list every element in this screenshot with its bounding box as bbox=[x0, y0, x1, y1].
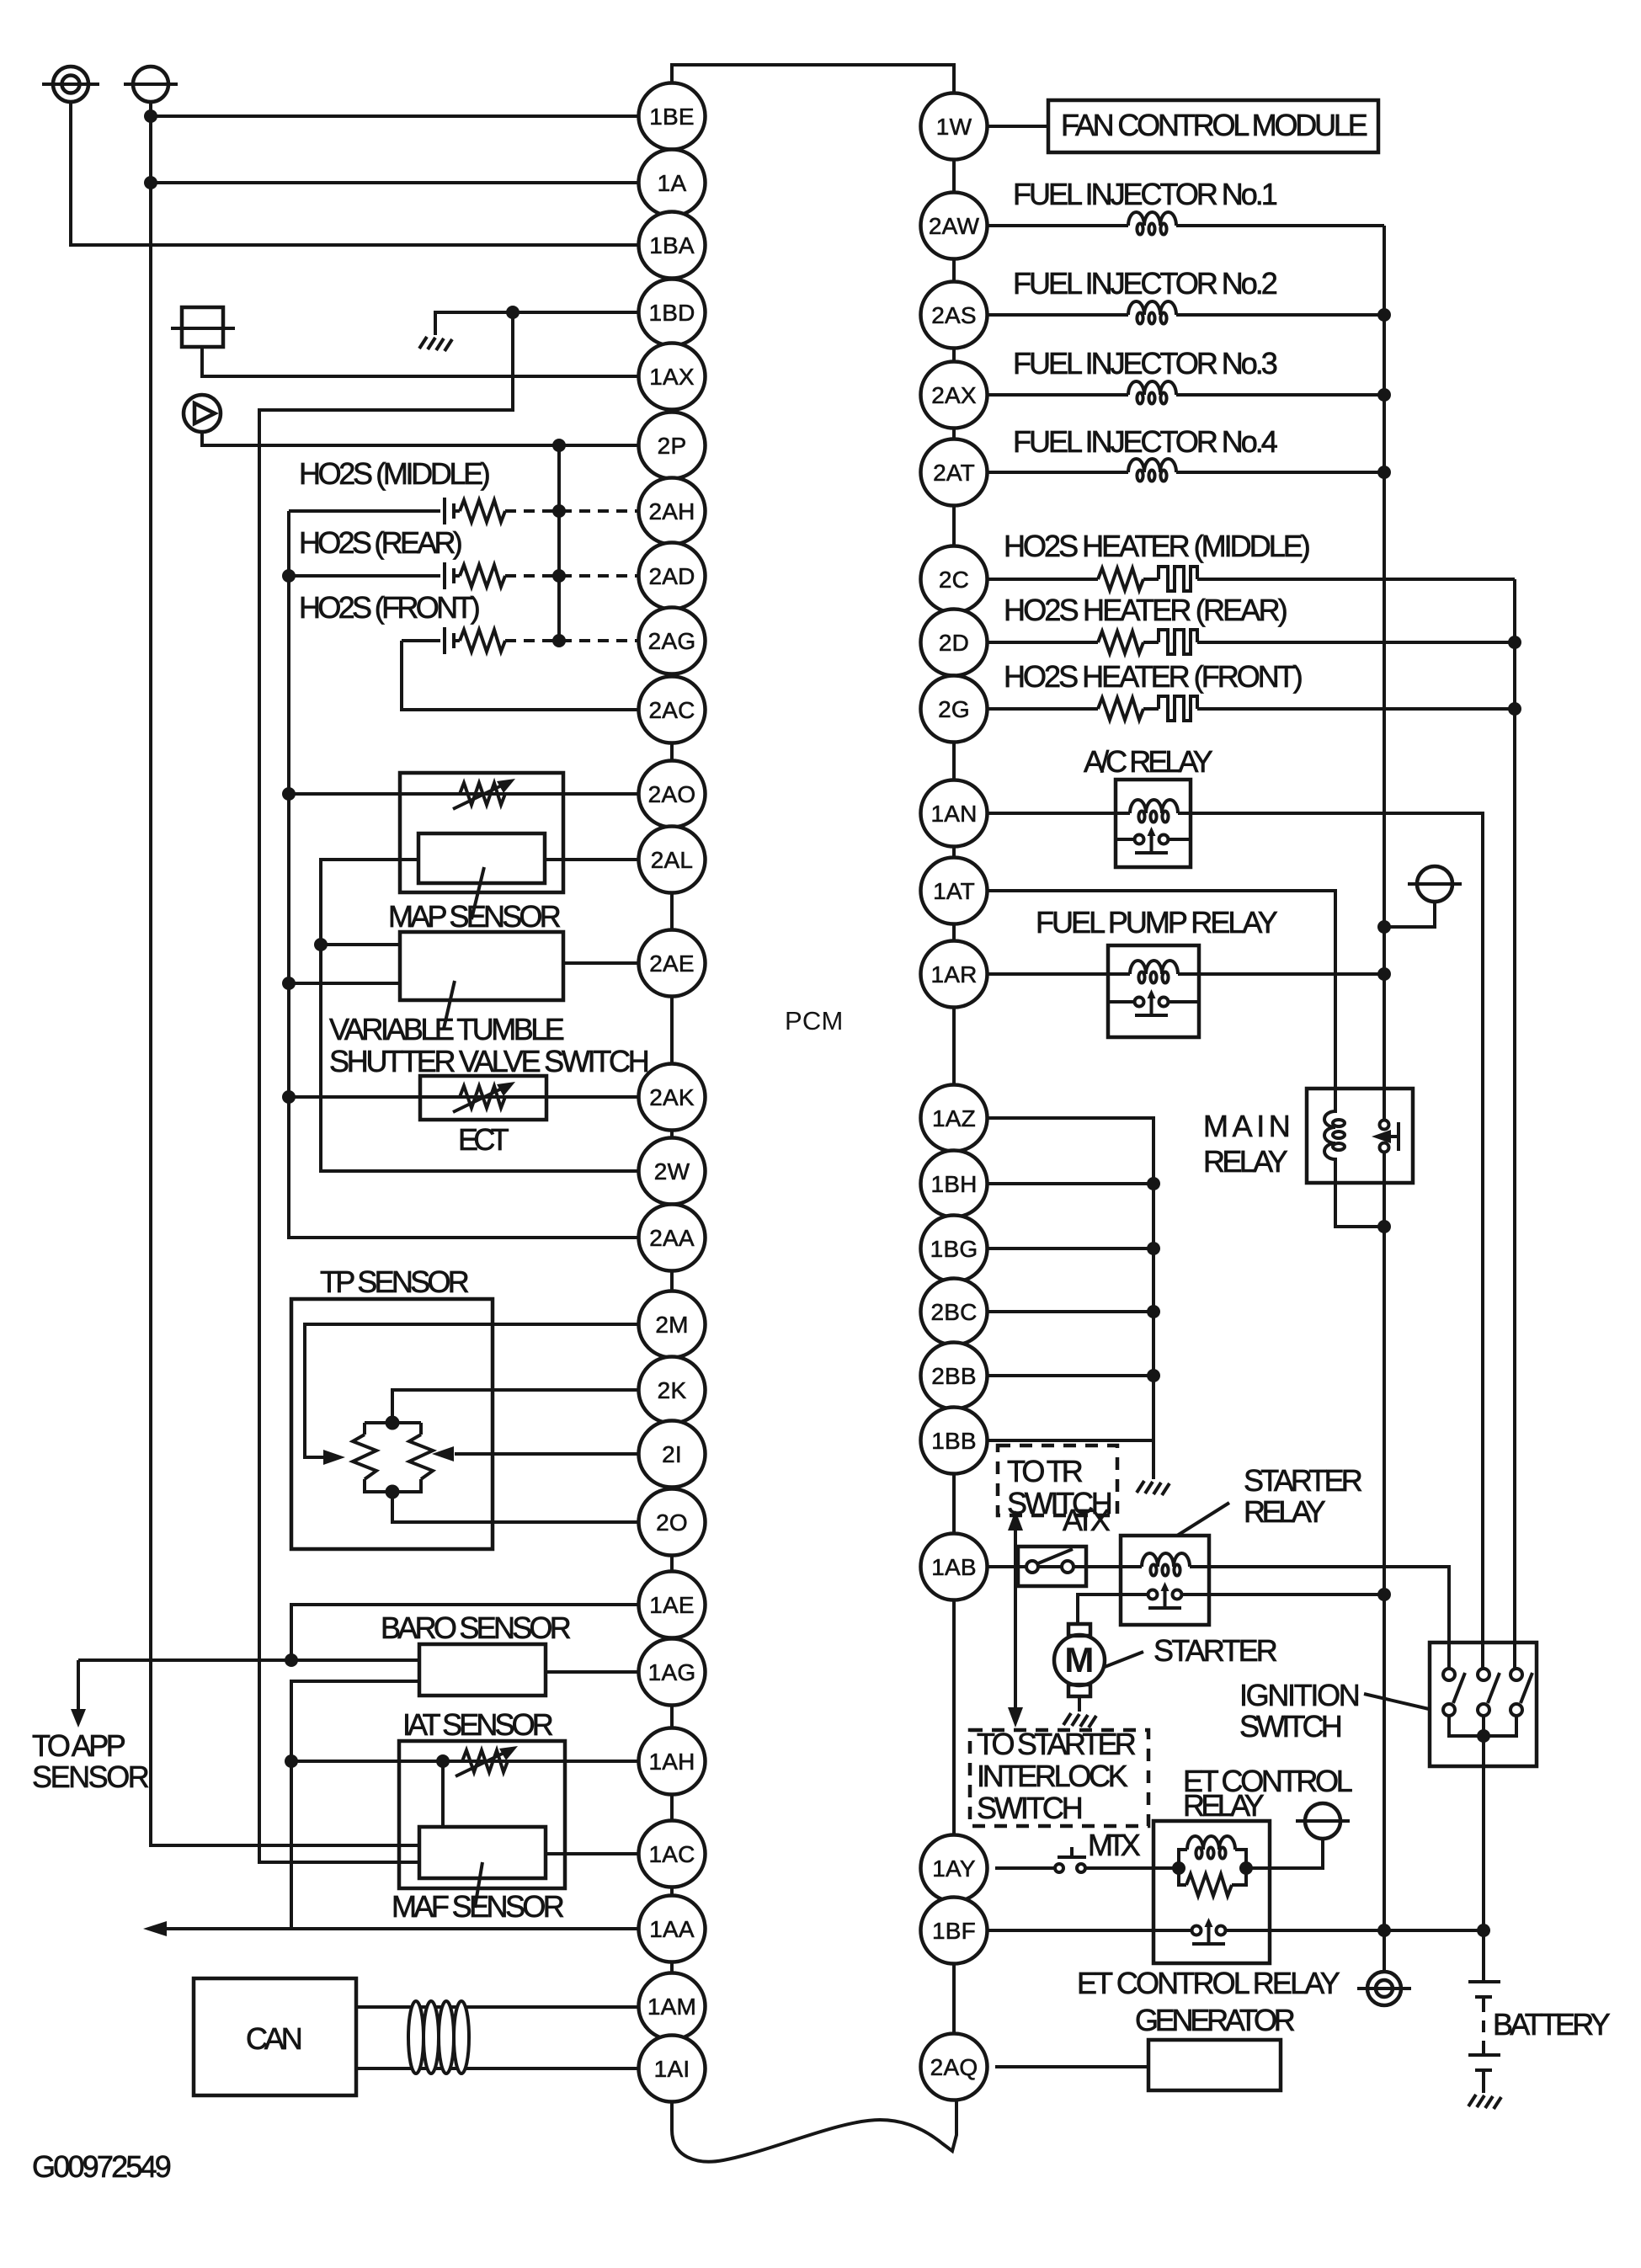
svg-text:ET CONTROL RELAY: ET CONTROL RELAY bbox=[1077, 1966, 1340, 2000]
svg-text:2AX: 2AX bbox=[931, 382, 977, 408]
svg-text:2P: 2P bbox=[658, 433, 687, 459]
svg-text:1BG: 1BG bbox=[930, 1236, 978, 1262]
svg-text:ECT: ECT bbox=[458, 1122, 509, 1157]
svg-text:IAT SENSOR: IAT SENSOR bbox=[402, 1707, 554, 1742]
svg-text:1AR: 1AR bbox=[930, 961, 977, 988]
svg-text:1AI: 1AI bbox=[654, 2056, 690, 2082]
svg-text:1BE: 1BE bbox=[649, 104, 695, 130]
svg-text:HO2S HEATER (FRONT): HO2S HEATER (FRONT) bbox=[1004, 659, 1303, 694]
svg-text:1BD: 1BD bbox=[648, 300, 695, 326]
svg-text:FUEL PUMP RELAY: FUEL PUMP RELAY bbox=[1036, 905, 1278, 940]
svg-text:2O: 2O bbox=[656, 1509, 688, 1536]
svg-text:M: M bbox=[1064, 1640, 1094, 1680]
svg-text:2G: 2G bbox=[938, 696, 970, 722]
svg-text:1AE: 1AE bbox=[649, 1592, 695, 1618]
svg-text:TO TR: TO TR bbox=[1007, 1454, 1084, 1488]
svg-text:FUEL INJECTOR No.1: FUEL INJECTOR No.1 bbox=[1013, 177, 1278, 211]
svg-text:MTX: MTX bbox=[1088, 1828, 1141, 1862]
svg-text:FUEL INJECTOR No.2: FUEL INJECTOR No.2 bbox=[1013, 266, 1278, 301]
svg-text:2AH: 2AH bbox=[648, 498, 695, 524]
svg-text:1AB: 1AB bbox=[931, 1554, 977, 1580]
svg-text:2AO: 2AO bbox=[648, 781, 696, 807]
svg-text:1AH: 1AH bbox=[648, 1749, 695, 1775]
svg-text:1AY: 1AY bbox=[932, 1855, 976, 1882]
svg-text:2C: 2C bbox=[939, 567, 969, 593]
svg-text:SHUTTER VALVE SWITCH: SHUTTER VALVE SWITCH bbox=[329, 1044, 650, 1078]
svg-text:1BA: 1BA bbox=[649, 232, 695, 258]
svg-text:2AG: 2AG bbox=[648, 628, 696, 654]
svg-text:INTERLOCK: INTERLOCK bbox=[977, 1759, 1128, 1793]
svg-text:IGNITION: IGNITION bbox=[1239, 1678, 1361, 1712]
svg-text:2BB: 2BB bbox=[931, 1363, 977, 1389]
svg-text:STARTER: STARTER bbox=[1244, 1463, 1363, 1498]
svg-text:TP SENSOR: TP SENSOR bbox=[320, 1264, 470, 1299]
svg-text:1AT: 1AT bbox=[933, 878, 975, 904]
svg-text:HO2S (REAR): HO2S (REAR) bbox=[299, 525, 463, 560]
svg-text:HO2S (FRONT): HO2S (FRONT) bbox=[299, 590, 481, 625]
svg-text:2AS: 2AS bbox=[931, 302, 977, 328]
svg-text:2AC: 2AC bbox=[648, 697, 695, 723]
svg-text:1AM: 1AM bbox=[647, 1994, 696, 2020]
svg-text:1A: 1A bbox=[658, 170, 687, 196]
svg-text:2AL: 2AL bbox=[651, 847, 693, 873]
svg-text:FUEL INJECTOR No.4: FUEL INJECTOR No.4 bbox=[1013, 424, 1278, 459]
svg-text:MAP SENSOR: MAP SENSOR bbox=[388, 899, 562, 934]
svg-text:2W: 2W bbox=[654, 1158, 690, 1185]
svg-text:1AC: 1AC bbox=[648, 1841, 695, 1867]
svg-text:A/C RELAY: A/C RELAY bbox=[1084, 744, 1213, 779]
svg-text:2AE: 2AE bbox=[649, 950, 695, 977]
svg-text:1W: 1W bbox=[936, 114, 972, 140]
svg-text:HO2S HEATER (REAR): HO2S HEATER (REAR) bbox=[1004, 593, 1288, 627]
svg-text:MAIN: MAIN bbox=[1203, 1109, 1291, 1143]
svg-text:2AT: 2AT bbox=[933, 460, 975, 486]
svg-text:1AN: 1AN bbox=[930, 801, 977, 827]
svg-text:2AQ: 2AQ bbox=[930, 2054, 978, 2080]
svg-text:2AD: 2AD bbox=[648, 563, 695, 589]
svg-text:1AX: 1AX bbox=[649, 364, 695, 390]
svg-text:ATX: ATX bbox=[1063, 1503, 1111, 1537]
svg-text:2K: 2K bbox=[658, 1377, 687, 1403]
svg-text:TO STARTER: TO STARTER bbox=[977, 1727, 1137, 1761]
svg-text:2AA: 2AA bbox=[649, 1225, 695, 1251]
svg-text:VARIABLE TUMBLE: VARIABLE TUMBLE bbox=[329, 1012, 565, 1046]
svg-text:HO2S (MIDDLE): HO2S (MIDDLE) bbox=[299, 456, 491, 491]
svg-text:2AK: 2AK bbox=[649, 1084, 695, 1110]
svg-text:1AZ: 1AZ bbox=[932, 1105, 976, 1131]
svg-text:2I: 2I bbox=[662, 1441, 682, 1467]
svg-text:MAF SENSOR: MAF SENSOR bbox=[392, 1889, 565, 1924]
svg-text:1BH: 1BH bbox=[930, 1171, 977, 1197]
svg-text:RELAY: RELAY bbox=[1244, 1494, 1326, 1529]
svg-text:BARO SENSOR: BARO SENSOR bbox=[381, 1610, 572, 1645]
svg-text:SWITCH: SWITCH bbox=[1239, 1709, 1343, 1744]
svg-text:2M: 2M bbox=[655, 1312, 688, 1338]
svg-text:GENERATOR: GENERATOR bbox=[1135, 2003, 1296, 2037]
svg-text:FAN CONTROL MODULE: FAN CONTROL MODULE bbox=[1061, 108, 1368, 142]
svg-text:SWITCH: SWITCH bbox=[977, 1791, 1084, 1825]
svg-text:RELAY: RELAY bbox=[1203, 1144, 1288, 1179]
svg-text:FUEL INJECTOR No.3: FUEL INJECTOR No.3 bbox=[1013, 346, 1278, 381]
svg-text:1AA: 1AA bbox=[649, 1916, 695, 1942]
svg-text:2D: 2D bbox=[939, 630, 969, 656]
svg-text:CAN: CAN bbox=[246, 2021, 303, 2056]
svg-text:SENSOR: SENSOR bbox=[32, 1760, 150, 1794]
svg-text:RELAY: RELAY bbox=[1183, 1788, 1265, 1823]
svg-text:BATTERY: BATTERY bbox=[1493, 2007, 1611, 2042]
svg-text:G00972549: G00972549 bbox=[32, 2149, 172, 2184]
svg-text:2BC: 2BC bbox=[930, 1299, 977, 1325]
svg-text:HO2S HEATER (MIDDLE): HO2S HEATER (MIDDLE) bbox=[1004, 529, 1311, 563]
svg-text:STARTER: STARTER bbox=[1153, 1633, 1278, 1668]
svg-text:1BB: 1BB bbox=[931, 1428, 977, 1454]
svg-text:1AG: 1AG bbox=[648, 1659, 696, 1685]
svg-text:TO APP: TO APP bbox=[32, 1728, 126, 1763]
svg-text:1BF: 1BF bbox=[932, 1918, 976, 1944]
svg-text:PCM: PCM bbox=[785, 1006, 844, 1036]
svg-text:2AW: 2AW bbox=[929, 213, 980, 239]
